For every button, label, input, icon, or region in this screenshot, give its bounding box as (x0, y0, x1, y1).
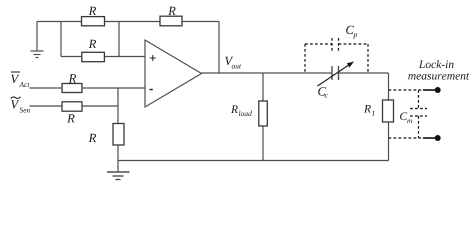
wire R_1 to bottom rail (388, 122, 390, 161)
ground (bottom) (107, 172, 130, 180)
op-amp U1 (145, 40, 202, 107)
node V_Act input label (11, 72, 30, 87)
wire left column joining parallel resistors (60, 22, 62, 57)
wire output rail (apex to C_c left plate) (202, 72, 333, 74)
wire measurement tap top (solid lead) (423, 89, 436, 91)
resistor R (V_Act input) (62, 74, 82, 92)
ground (top left) (31, 22, 44, 58)
resistor R (upper, + input to ground) (82, 7, 105, 26)
wire junction column inverting node (117, 88, 119, 124)
wire right column joining parallel resistors (node to + input) (118, 22, 120, 57)
wire measurement tap top (dashed) (389, 89, 424, 91)
wire R_load tap (262, 73, 264, 101)
resistor R_load (231, 101, 267, 126)
wire measurement tap bottom (solid lead) (423, 137, 436, 139)
resistor R (feedback, node to output) (160, 7, 182, 26)
label C_m (400, 112, 412, 123)
label Lock-in measurement (408, 60, 469, 80)
resistor R (inverting node to ground) (89, 124, 124, 146)
wire R_1 column top (388, 73, 390, 100)
node V_out label (225, 57, 241, 69)
resistor R_1 (364, 100, 394, 122)
wire output rail (C_c right plate to R_1 column) (339, 72, 389, 74)
wire bottom rail (118, 160, 389, 162)
wire V_Act row to inverting input (30, 87, 146, 89)
node V_Sen input label (11, 97, 31, 113)
wire R_load to bottom rail (262, 126, 264, 161)
label C_p (346, 26, 357, 39)
resistor R (lower, + input to ground) (82, 40, 105, 62)
wire measurement tap bottom (dashed) (389, 137, 424, 139)
capacitor C_c (variable) (318, 62, 355, 98)
wire from resistor down to bottom ground (117, 145, 119, 172)
wire lower parallel-resistor row (61, 56, 145, 58)
capacitor C_m (measurement, dashed) (410, 90, 427, 138)
terminal (top) (435, 87, 441, 93)
wire V_Sen row (30, 105, 119, 107)
wire feedback column down to output node (218, 22, 220, 74)
resistor R (V_Sen input) (62, 102, 82, 123)
capacitor C_p (parasitic, dashed) (305, 38, 368, 73)
terminal (bottom) (435, 135, 441, 141)
wire top feedback rail (37, 21, 219, 23)
